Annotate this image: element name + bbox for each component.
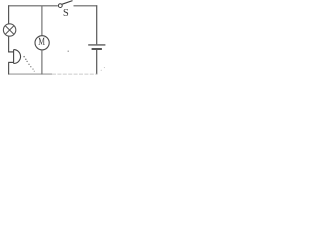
motor M circle (35, 36, 49, 50)
wire top-right horizontal (74, 5, 98, 7)
label M (38, 38, 44, 45)
switch S pivot (58, 4, 62, 8)
switch S lever (62, 1, 72, 5)
noise speck near node (68, 51, 69, 52)
dashed leader line to buzzer (23, 56, 35, 72)
wire top-left horizontal (8, 5, 58, 7)
wire motor branch upper (41, 6, 43, 36)
wire right vertical lower (96, 50, 98, 74)
wire motor branch lower (41, 50, 43, 75)
wire bottom horizontal right half (52, 73, 97, 75)
wire bottom horizontal left half (8, 73, 52, 75)
noise speck lower right 2 (104, 67, 105, 68)
buzzer dome (14, 50, 21, 64)
buzzer top terminal stub (8, 51, 13, 53)
lamp L circle (3, 24, 15, 36)
label S (64, 9, 68, 16)
buzzer flat side (13, 50, 15, 64)
wire left vertical middle (8, 36, 10, 52)
wire left vertical upper (8, 5, 10, 24)
battery short plate (92, 48, 102, 50)
lamp L cross (5, 26, 14, 35)
wire right vertical upper (96, 5, 98, 44)
battery long plate (88, 44, 105, 46)
noise speck lower right (101, 70, 102, 71)
buzzer bottom terminal stub (8, 61, 13, 63)
wire left vertical lower (8, 62, 10, 74)
